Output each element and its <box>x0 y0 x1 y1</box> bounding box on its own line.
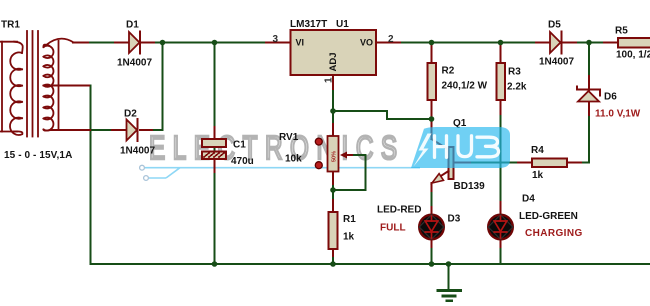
wire: RV1 bottom to R1 top <box>332 190 334 212</box>
node: D1/D2 output on top rail <box>160 40 166 46</box>
diode D5 1N4007 <box>539 20 574 68</box>
node: RV1 bottom / wiper <box>330 187 336 193</box>
node: R3 top <box>498 40 504 46</box>
resistor R3 2.2k <box>497 63 527 100</box>
svg-text:R4: R4 <box>531 145 544 156</box>
wire: R3 top pin riser <box>500 43 502 64</box>
resistor R4 1k <box>531 145 567 181</box>
wire: D6 cathode riser to rail <box>588 43 590 91</box>
node: ADJ / RV1 top <box>330 108 336 114</box>
watermark HUB box <box>411 127 510 168</box>
wire: ADJ down to RV1 <box>332 75 334 190</box>
svg-text:D3: D3 <box>448 214 461 225</box>
wire: D3 anode / emitter drop <box>431 191 433 207</box>
diode D1 1N4007 <box>117 20 152 69</box>
svg-text:VI: VI <box>296 38 305 48</box>
regulator U1 LM317T <box>273 19 395 83</box>
node: ground stem rail <box>446 261 452 267</box>
wire: RV1 wiper loop <box>333 155 366 190</box>
svg-text:2.2k: 2.2k <box>507 82 527 93</box>
wire: D2 cathode riser to top rail <box>162 43 164 131</box>
wire: top rail left (secondary top to VI) <box>73 42 290 44</box>
svg-text:R1: R1 <box>343 214 356 225</box>
transformer TR1 <box>0 31 74 137</box>
svg-text:LED-GREEN: LED-GREEN <box>519 211 578 222</box>
svg-text:R3: R3 <box>508 67 521 78</box>
svg-text:LED-RED: LED-RED <box>377 205 421 216</box>
node: R2 bottom / Q1 collector <box>429 116 435 122</box>
capacitor C1 470u <box>202 139 254 167</box>
svg-text:1N4007: 1N4007 <box>120 146 155 157</box>
node: C1 bottom rail <box>212 261 218 267</box>
wire: centre tap down to bottom rail <box>51 86 650 265</box>
svg-text:11.0 V,1W: 11.0 V,1W <box>595 109 641 120</box>
potentiometer RV1 10k <box>279 132 352 172</box>
resistor R5 100,1/2 <box>615 26 650 61</box>
wire: R1 bottom to rail <box>332 249 334 264</box>
diode D2 1N4007 <box>120 109 155 157</box>
svg-text:TR1: TR1 <box>1 20 20 31</box>
svg-text:C1: C1 <box>233 140 246 151</box>
svg-text:RV1: RV1 <box>279 132 299 143</box>
wire: VO rail to R5 <box>378 42 618 44</box>
svg-text:1: 1 <box>324 77 335 83</box>
wire: D4 cathode to rail <box>500 239 502 264</box>
svg-text:D2: D2 <box>124 109 137 120</box>
svg-text:1k: 1k <box>343 232 355 243</box>
node: R1 bottom rail <box>330 261 336 267</box>
transistor Q1 BD139 <box>432 118 486 192</box>
svg-text:3: 3 <box>273 34 279 45</box>
LED D4 green <box>488 194 582 240</box>
svg-text:1k: 1k <box>532 170 544 181</box>
wire: ADJ step to R2 bottom node <box>333 111 432 119</box>
svg-text:R5: R5 <box>615 26 628 37</box>
svg-text:CHARGING: CHARGING <box>525 228 583 239</box>
wire: secondary bottom to D2 <box>51 129 127 131</box>
wire: Q1 base to R4 <box>454 162 533 164</box>
svg-text:470u: 470u <box>231 156 254 167</box>
svg-text:10k: 10k <box>285 154 302 165</box>
svg-text:50%: 50% <box>331 151 337 162</box>
svg-text:LM317T: LM317T <box>290 19 327 30</box>
watermark swoosh underline <box>140 165 420 180</box>
svg-text:240,1/2 W: 240,1/2 W <box>442 81 488 92</box>
resistor R2 240,1/2W <box>428 63 488 100</box>
node: D5/R5/D6 <box>586 40 592 46</box>
wire: R2 top pin riser <box>431 43 433 64</box>
wire: C1 vertical <box>214 43 216 265</box>
svg-text:2: 2 <box>388 34 394 45</box>
svg-text:BD139: BD139 <box>454 181 486 192</box>
bolt <box>414 134 432 167</box>
node: D3 bottom rail <box>429 261 435 267</box>
svg-text:R2: R2 <box>442 66 455 77</box>
svg-text:1N4007: 1N4007 <box>117 58 152 69</box>
zener D6 11.0V 1W <box>577 87 641 120</box>
svg-text:100, 1/2: 100, 1/2 <box>616 50 650 61</box>
wire: R3 bottom to D4 <box>500 100 502 214</box>
svg-text:U1: U1 <box>336 19 349 30</box>
svg-text:1N4007: 1N4007 <box>539 57 574 68</box>
svg-text:D5: D5 <box>548 20 561 31</box>
svg-text:15 - 0 - 15V,1A: 15 - 0 - 15V,1A <box>4 150 72 161</box>
svg-text:D4: D4 <box>522 194 535 205</box>
LED D3 red <box>377 205 461 240</box>
svg-text:D6: D6 <box>604 92 617 103</box>
svg-text:ADJ: ADJ <box>328 52 339 71</box>
svg-text:VO: VO <box>360 38 373 48</box>
node: R2 top <box>429 40 435 46</box>
wire: D3 cathode to rail <box>431 239 433 264</box>
wire: R4 right to D6 anode <box>567 102 589 163</box>
maroon pin stubs overlay <box>51 43 618 257</box>
svg-text:FULL: FULL <box>380 223 406 234</box>
watermark ELECTRONICS text <box>149 131 405 167</box>
node: C1 top <box>212 40 218 46</box>
svg-text:D1: D1 <box>126 20 139 31</box>
resistor R1 1k <box>329 212 357 249</box>
ground <box>438 264 461 301</box>
